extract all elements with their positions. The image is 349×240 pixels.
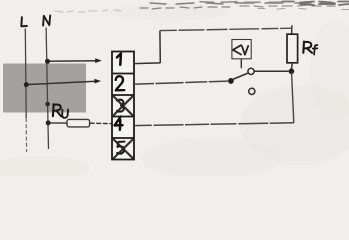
voltage monitor label <v [233, 45, 248, 55]
terminal divider 4/5 [112, 137, 134, 139]
terminal 4 label [115, 117, 123, 130]
switch contact upper [248, 68, 254, 74]
arrowhead into terminal 1 [95, 58, 102, 63]
switch lever [231, 73, 247, 80]
label L [21, 17, 27, 26]
node: junction dot on L line (wire to 2) [24, 82, 29, 87]
voltage monitor U1 box [232, 40, 251, 59]
wire N vertical [46, 28, 48, 150]
wire down to Rf [291, 25, 293, 34]
wire resistor Ru to terminal 4 [90, 122, 112, 124]
torn paper edge speckle along top [55, 2, 349, 13]
wire node down to bottom rail [292, 71, 294, 123]
wire Rf bottom to node [291, 63, 294, 70]
resistor Rf [287, 34, 298, 63]
wire L vertical [24, 29, 27, 119]
grey highlight rectangle [3, 64, 86, 113]
wire N to terminal 1 [48, 60, 97, 63]
wire top horizontal [160, 28, 292, 30]
wire stub below voltage monitor [240, 59, 242, 68]
terminal divider 1/2 [112, 73, 134, 75]
arrowhead into terminal 2 [94, 79, 101, 84]
terminal 1 label [117, 54, 121, 65]
label Ru [53, 104, 68, 118]
terminal 5 label [117, 142, 125, 154]
switch contact lower [249, 88, 255, 94]
node: switch common dot [228, 78, 234, 84]
wire upper contact to node [254, 70, 288, 72]
terminal divider 3/4 [112, 116, 134, 118]
terminal 2 label [116, 76, 125, 90]
wire terminal 1 to riser [134, 62, 160, 65]
terminal 3 label [117, 100, 124, 112]
label N [43, 16, 50, 26]
node: junction Rf / switch / riser [289, 69, 295, 75]
X cross over terminal 3 [113, 96, 134, 116]
paper background [0, 0, 349, 175]
wire terminal 2 to switch common [134, 81, 228, 84]
X cross over terminal 5 [113, 139, 134, 159]
terminal divider 2/3 [112, 94, 134, 96]
wire L to terminal 2 [26, 81, 96, 84]
node: junction dot on N line (wire to 1) [45, 59, 50, 64]
node: junction dot on N line (wire to Ru) [46, 120, 51, 125]
wire bottom rail to terminal 4 [134, 123, 294, 126]
wire N dot to resistor Ru [48, 122, 67, 124]
terminal block outline [112, 52, 134, 160]
node: dot on N line [45, 102, 50, 107]
wire riser up [159, 31, 161, 63]
resistor Ru [67, 119, 90, 127]
label Rf [303, 42, 317, 55]
